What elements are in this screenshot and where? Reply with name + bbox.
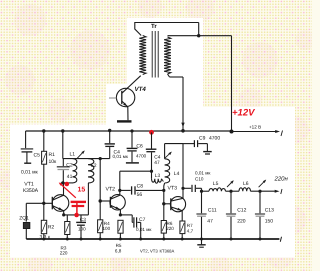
svg-text:С2: С2 [66,163,73,169]
svg-text:СЗ: СЗ [80,217,86,222]
svg-text:R1: R1 [49,152,56,158]
svg-text:L1: L1 [70,151,76,157]
svg-text:L3: L3 [155,173,161,179]
svg-text:220: 220 [166,226,174,231]
svg-text:+12V: +12V [232,108,255,119]
svg-text:0,01 мк: 0,01 мк [195,171,211,176]
svg-text:220н: 220н [274,175,289,182]
svg-text:VT2: VT2 [106,187,116,193]
svg-text:С6: С6 [136,144,143,150]
svg-text:С9: С9 [199,135,206,141]
svg-text:4700: 4700 [136,154,147,159]
svg-text:КТ368А: КТ368А [160,249,175,254]
svg-text:ZQ1: ZQ1 [19,215,29,221]
svg-text:R3: R3 [61,245,67,250]
svg-text:L6: L6 [243,181,249,187]
svg-text:С11: С11 [208,207,217,213]
svg-text:С4: С4 [154,154,160,160]
svg-text:10к: 10к [49,159,58,165]
svg-text:VT2, VT3: VT2, VT3 [140,249,158,254]
svg-text:15: 15 [78,187,86,194]
svg-text:Tr: Tr [151,23,157,30]
svg-text:47: 47 [154,160,160,166]
svg-text:L4: L4 [174,171,180,177]
svg-text:4,7: 4,7 [187,229,194,234]
svg-text:К350А: К350А [23,188,39,194]
svg-text:4700: 4700 [209,135,220,141]
svg-text:С12: С12 [237,207,246,213]
svg-text:220: 220 [60,251,68,256]
svg-text:56: 56 [137,192,143,198]
svg-text:47: 47 [207,218,213,224]
svg-text:VT1: VT1 [24,182,34,188]
svg-text:VT4: VT4 [135,86,147,93]
svg-text:41: 41 [67,174,73,180]
svg-text:С8: С8 [137,184,144,190]
svg-text:R2: R2 [48,224,55,230]
svg-text:L5: L5 [213,181,219,187]
svg-text:R7: R7 [187,223,193,228]
svg-text:L2: L2 [91,163,97,169]
svg-text:С5: С5 [34,153,41,159]
svg-text:220: 220 [237,218,246,224]
svg-text:0,01 мк: 0,01 мк [136,227,152,232]
svg-text:С10: С10 [195,176,204,181]
svg-text:150: 150 [265,218,274,224]
svg-text:6,8: 6,8 [115,248,122,253]
svg-text:+12 В: +12 В [249,125,261,130]
svg-text:С13: С13 [265,207,274,213]
svg-text:0,01 мк: 0,01 мк [113,154,129,159]
svg-text:100: 100 [103,226,111,231]
svg-text:0,01 мк: 0,01 мк [21,169,39,175]
svg-text:100: 100 [78,226,86,231]
svg-text:С7: С7 [139,217,146,223]
svg-text:VT3: VT3 [168,186,178,192]
